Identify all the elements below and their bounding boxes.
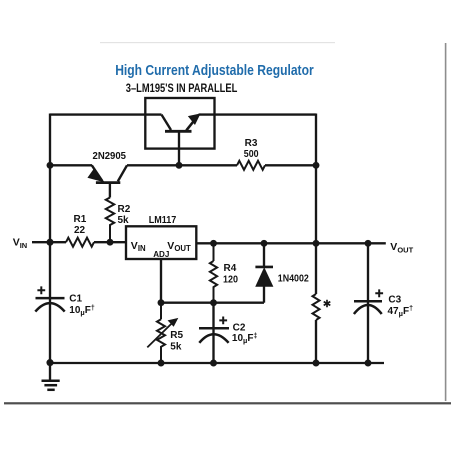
wire: R3 to right rail [265, 164, 316, 166]
diode D1 1N4002 [255, 243, 273, 302]
junction dot R2 bottom [107, 239, 114, 246]
junction dot VIN node [46, 239, 53, 246]
page right border [445, 43, 447, 401]
page bottom border [4, 402, 451, 404]
junction dot diode top [261, 240, 268, 247]
title [115, 62, 314, 79]
label 3-LM195'S IN PARALLEL [126, 81, 238, 95]
plus sign C3 [375, 289, 383, 297]
label VOUT terminal [390, 241, 413, 255]
wire: ADJ pin down [160, 259, 162, 303]
wire: R1 to LM117 [94, 241, 126, 243]
label C3 [388, 294, 401, 305]
resistor R3 zigzag [237, 161, 265, 170]
capacitor C1 [35, 298, 64, 312]
junction dot R5 bottom [158, 360, 165, 367]
svg-text:LM117: LM117 [149, 215, 177, 226]
label R1 [74, 214, 87, 225]
label 22 [74, 225, 86, 236]
pin label ADJ [153, 249, 169, 259]
junction dot R4 top [210, 240, 217, 247]
svg-text:R5: R5 [170, 330, 183, 341]
junction dot left rail / emitter [47, 162, 54, 169]
capacitor C2 [199, 303, 229, 363]
svg-text:500: 500 [244, 149, 259, 160]
svg-text:5k: 5k [118, 215, 130, 226]
svg-text:1N4002: 1N4002 [278, 274, 309, 285]
svg-text:High Current Adjustable Regula: High Current Adjustable Regulator [115, 62, 314, 79]
svg-text:C1: C1 [69, 293, 82, 304]
label R3 [245, 138, 258, 149]
LM195 box [145, 98, 214, 149]
svg-text:C2: C2 [233, 322, 246, 333]
junction dot C3 top [365, 240, 372, 247]
svg-text:R4: R4 [224, 263, 237, 274]
junction dot right rail output [313, 240, 320, 247]
wire: top rail [50, 113, 316, 115]
svg-text:C3: C3 [388, 294, 401, 305]
junction dot star resistor bottom [313, 360, 320, 367]
label 47uF C3 [388, 306, 414, 318]
label R4 [224, 263, 237, 274]
label 500 [244, 149, 259, 160]
svg-text:ADJ: ADJ [153, 249, 169, 259]
wire: ADJ horizontal [161, 302, 264, 304]
plus sign C2 [219, 317, 227, 325]
resistor R4 with leads [210, 243, 217, 302]
wire: bottom rail [50, 362, 384, 364]
label LM117 [149, 215, 177, 226]
junction dot LM195 emitter node [176, 162, 183, 169]
wire: VIN input lead [32, 241, 66, 243]
label C1 [69, 293, 82, 304]
svg-text:R1: R1 [74, 214, 87, 225]
junction dot ground node [46, 359, 53, 366]
wire: emitter line from left rail [50, 164, 92, 166]
label 5k (R5) [170, 342, 182, 353]
svg-text:22: 22 [74, 225, 86, 236]
svg-text:3–LM195'S IN PARALLEL: 3–LM195'S IN PARALLEL [126, 81, 238, 95]
junction dot R4 bottom C2 top [210, 299, 217, 306]
label * [324, 300, 331, 308]
wire: left vertical rail [49, 114, 51, 364]
transistor Q1 2N2905 symbol [89, 165, 127, 197]
label 5k [118, 215, 130, 226]
label 10uF C1 [69, 305, 95, 317]
junction dot C2 bottom [210, 360, 217, 367]
svg-text:R2: R2 [118, 204, 131, 215]
pin label VOUT inside [167, 240, 191, 253]
resistor Rx (starred) on right rail [313, 294, 320, 320]
wire: right vertical rail [315, 114, 317, 365]
junction dot ADJ node [158, 299, 165, 306]
capacitor C3 [354, 243, 382, 363]
label R2 [118, 204, 131, 215]
label C2 [233, 322, 246, 333]
plus sign C1 [37, 286, 45, 294]
wire: output from LM117 [196, 242, 385, 244]
svg-text:5k: 5k [170, 342, 182, 353]
junction dot R3 right [313, 162, 320, 169]
wire: collector line to R3 [127, 164, 237, 166]
svg-text:R3: R3 [245, 138, 258, 149]
page top faint border [100, 42, 335, 43]
label R5 [170, 330, 183, 341]
resistor R2 zigzag [106, 198, 114, 243]
label 10uF C2 [232, 333, 258, 345]
LM117 box U2 [126, 226, 196, 259]
label 1N4002 [278, 274, 309, 285]
label 2N2905 [93, 151, 127, 162]
svg-text:120: 120 [223, 274, 238, 285]
junction dot C3 bottom [365, 360, 372, 367]
transistor U1 3-LM195 symbol [162, 115, 200, 166]
label VIN terminal [13, 236, 28, 250]
label 120 [223, 274, 238, 285]
pin label VIN inside [131, 240, 146, 253]
variable resistor R5 [147, 303, 177, 363]
resistor R1 zigzag [66, 238, 94, 247]
svg-text:2N2905: 2N2905 [93, 151, 127, 162]
ground [42, 363, 60, 390]
